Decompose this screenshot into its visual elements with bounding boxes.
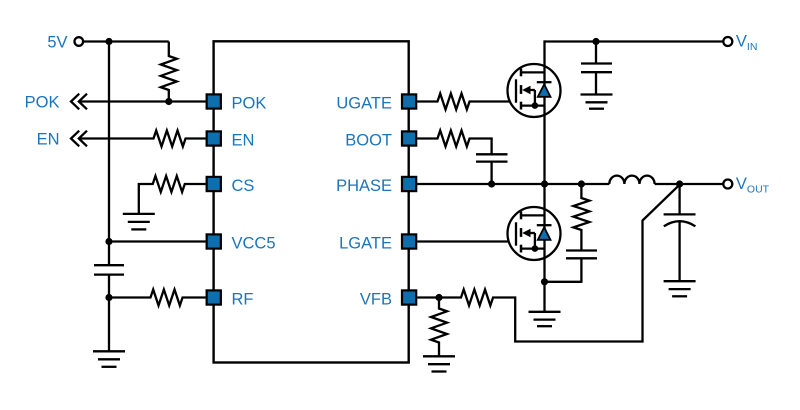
resistor R5 (UGATE gate) with wires [417, 94, 516, 110]
junction PHASE/Q1Q2 [541, 180, 548, 187]
transistor Q2 (low-side MOSFET) [508, 207, 561, 260]
pin PHASE [402, 177, 416, 191]
ground (left rail) [93, 351, 125, 367]
svg-text:RF: RF [232, 291, 254, 309]
chevron arrow POK [71, 94, 87, 110]
wire VIN rail [545, 40, 724, 42]
ground (VIN cap) [581, 95, 613, 109]
resistor R2 (EN series) with wires [79, 131, 206, 147]
transistor Q1 (high-side MOSFET) [508, 64, 561, 117]
svg-text:EN: EN [232, 132, 255, 150]
junction VFB [435, 294, 442, 301]
junction PHASE/snubber [578, 180, 585, 187]
pin CS [207, 177, 221, 191]
resistor R8 (VFB lower divider) [431, 298, 447, 357]
resistor R6 (BOOT) with wires [417, 131, 491, 155]
capacitor C2 (VIN bypass) [581, 42, 612, 95]
wire Q1 drain-source vertical [543, 40, 545, 184]
svg-text:POK: POK [25, 94, 60, 112]
wire left rail upper [108, 42, 110, 266]
pin LGATE [402, 234, 416, 248]
pin BOOT [402, 131, 416, 145]
wire VCC5 [109, 240, 206, 242]
capacitor C3 (bootstrap) [476, 154, 508, 184]
resistor R1 (POK pull-up) [161, 42, 177, 102]
chevron arrow EN [71, 131, 87, 147]
ground (Q2 source) [529, 312, 561, 326]
wire LGATE [417, 240, 516, 242]
pin UGATE [402, 94, 416, 108]
pin EN [207, 131, 221, 145]
ground (VFB divider) [423, 356, 455, 371]
svg-text:UGATE: UGATE [336, 95, 392, 113]
svg-text:VOUT: VOUT [736, 175, 770, 196]
junction Q2 source/snubber [541, 278, 548, 285]
pin POK [207, 94, 221, 108]
wire Q2 drain-source vertical [543, 184, 545, 312]
wire 5V horizontal [83, 40, 169, 42]
svg-text:BOOT: BOOT [345, 132, 392, 150]
resistor R3 (CS) with wires [139, 176, 206, 214]
diode D2 (Q2 body diode) [537, 225, 552, 240]
junction 5V rail [105, 38, 112, 45]
wire PHASE [417, 183, 609, 185]
wire PHASE to VOUT [655, 183, 724, 185]
pin VFB [402, 290, 416, 304]
capacitor C1 (VCC5 bypass) [94, 265, 124, 274]
junction VIN cap [592, 38, 599, 45]
diode D1 (Q1 body diode) [537, 82, 552, 97]
wire snubber to Q2 source [545, 281, 582, 283]
svg-text:EN: EN [37, 131, 60, 149]
resistor R7 (snubber) with wires [573, 184, 589, 251]
junction BOOT cap / phase [488, 180, 495, 187]
svg-text:CS: CS [232, 177, 255, 195]
ground (CS) [123, 214, 155, 230]
terminal 5V [75, 37, 84, 46]
ground (output cap) [664, 281, 696, 296]
svg-text:PHASE: PHASE [336, 177, 392, 195]
junction POK/R1 [165, 98, 172, 105]
wire POK [79, 100, 206, 102]
pin VCC5 [207, 234, 221, 248]
wire left rail lower [108, 275, 110, 352]
resistor R4 (RF) with wires [109, 290, 206, 306]
svg-text:LGATE: LGATE [339, 235, 392, 253]
capacitor C4 (snubber) [566, 251, 597, 283]
svg-text:POK: POK [232, 95, 267, 113]
junction RF/rail [105, 294, 112, 301]
pin RF [207, 290, 221, 304]
svg-text:VCC5: VCC5 [232, 235, 276, 253]
svg-text:5V: 5V [47, 34, 67, 52]
inductor L1 [609, 176, 654, 184]
IC U1 body [214, 41, 409, 362]
junction VCC5/rail [105, 238, 112, 245]
terminal VOUT [723, 180, 732, 189]
junction VOUT cap [676, 180, 683, 187]
wire VFB [417, 296, 439, 298]
resistor R9 (feedback) with wires [439, 185, 680, 342]
terminal VIN [723, 37, 732, 46]
svg-text:VFB: VFB [360, 291, 392, 309]
svg-text:VIN: VIN [736, 33, 758, 54]
capacitor C5 (output, polarized) [664, 184, 696, 281]
